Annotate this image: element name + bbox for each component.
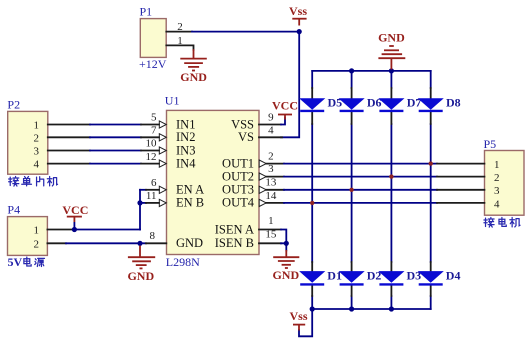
hanzi yuan of 5V dianyuan xyxy=(35,258,45,266)
hanzi dan of jiedanpianji xyxy=(22,177,32,186)
node bus D2 xyxy=(349,306,354,311)
svg-text:D4: D4 xyxy=(446,268,461,282)
svg-text:D6: D6 xyxy=(367,96,382,110)
U1 output arrow OUT2 xyxy=(259,173,266,180)
svg-text:D5: D5 xyxy=(328,96,343,110)
U1 input arrow IN4 xyxy=(159,160,166,167)
power symbol Vss bottom xyxy=(293,325,305,331)
svg-text:GND: GND xyxy=(378,31,405,45)
svg-text:D7: D7 xyxy=(407,96,422,110)
diode D7 xyxy=(378,96,421,111)
connector P1 xyxy=(139,5,167,72)
svg-text:OUT4: OUT4 xyxy=(222,196,255,210)
svg-text:OUT3: OUT3 xyxy=(222,183,254,197)
svg-text:L298N: L298N xyxy=(166,255,200,269)
wire EN A xyxy=(140,189,146,191)
U1 input arrow IN3 xyxy=(159,147,166,154)
svg-text:P1: P1 xyxy=(140,5,153,19)
svg-text:GND: GND xyxy=(176,236,203,250)
svg-text:2: 2 xyxy=(268,151,274,163)
hanzi dian of jiedianji xyxy=(499,218,506,227)
node GND drop junction xyxy=(137,241,142,246)
svg-text:Vss: Vss xyxy=(289,4,307,18)
wire Vss vertical to VS pin xyxy=(281,32,299,138)
node OUT3 x D6 column xyxy=(349,188,353,192)
node OUT4 x D5 column xyxy=(310,201,314,205)
U1 output arrow OUT1 xyxy=(259,160,266,167)
node VCC junction xyxy=(72,227,77,232)
svg-text:5V: 5V xyxy=(8,255,23,269)
svg-text:13: 13 xyxy=(265,177,277,189)
wire P2 pin3 to IN3 xyxy=(48,150,90,152)
svg-text:Vss: Vss xyxy=(290,309,308,323)
svg-text:2: 2 xyxy=(494,172,500,184)
wire VSS pin to VCC symbol xyxy=(281,118,285,125)
svg-text:1: 1 xyxy=(34,225,40,237)
svg-text:ISEN A: ISEN A xyxy=(215,222,254,236)
connector P2 xyxy=(7,98,47,175)
U1 input arrow EN A xyxy=(159,186,166,193)
node ISEN junction xyxy=(284,241,289,246)
node bus D7 xyxy=(389,68,394,73)
wire diode column 2 xyxy=(351,71,353,309)
connector P4 xyxy=(7,202,47,255)
diode D6 xyxy=(339,96,382,111)
wire OUT4 to P5 pin4 xyxy=(266,202,284,204)
svg-text:2: 2 xyxy=(34,132,40,144)
U1 ISEN B pin 15 line xyxy=(259,242,281,244)
U1 input arrow IN1 xyxy=(159,121,166,128)
svg-text:1: 1 xyxy=(177,35,183,47)
U1 input arrow EN B xyxy=(159,199,166,206)
hanzi ji of jiedianji xyxy=(510,218,520,227)
wire OUT3 to P5 pin3 xyxy=(266,189,284,191)
diode D8 xyxy=(418,96,461,111)
svg-text:OUT1: OUT1 xyxy=(222,156,254,170)
U1 VS pin 4 line xyxy=(259,136,282,138)
svg-text:P4: P4 xyxy=(7,202,20,216)
svg-text:1: 1 xyxy=(34,120,40,132)
svg-text:5: 5 xyxy=(151,112,157,124)
P4 pin 1 line xyxy=(47,229,74,231)
svg-text:4: 4 xyxy=(268,124,274,136)
wire EN vertical xyxy=(139,190,141,230)
wire top diode bus xyxy=(312,70,431,72)
wire ISEN A to vertical xyxy=(281,230,286,244)
svg-text:D1: D1 xyxy=(327,268,342,282)
ground symbol below P1 xyxy=(180,49,207,70)
svg-text:ISEN B: ISEN B xyxy=(215,236,254,250)
node bus D6 xyxy=(349,68,354,73)
svg-text:VCC: VCC xyxy=(62,203,88,217)
svg-text:3: 3 xyxy=(494,185,500,197)
hanzi dian of 5V dianyuan xyxy=(24,257,31,266)
U1 output arrow OUT3 xyxy=(259,186,266,193)
node bus D3 xyxy=(389,306,394,311)
svg-text:15: 15 xyxy=(265,229,277,241)
svg-text:10: 10 xyxy=(146,138,158,150)
svg-text:EN B: EN B xyxy=(176,196,204,210)
svg-text:GND: GND xyxy=(180,70,207,84)
diode D4 xyxy=(418,268,461,284)
svg-text:GND: GND xyxy=(272,268,299,282)
svg-text:9: 9 xyxy=(268,112,274,124)
diode D5 xyxy=(299,96,342,111)
svg-text:IN3: IN3 xyxy=(176,143,195,157)
svg-text:IN4: IN4 xyxy=(176,156,196,170)
svg-text:1: 1 xyxy=(494,159,500,171)
wire Vss hook bottom xyxy=(299,309,312,336)
node Vss top junction xyxy=(297,29,302,34)
wire P4 pin2 to U1 GND xyxy=(66,242,146,244)
P1 pin 1 line xyxy=(166,45,193,49)
wire P2 pin1 to IN1 xyxy=(48,124,90,126)
svg-text:D3: D3 xyxy=(407,268,422,282)
svg-text:IN2: IN2 xyxy=(176,130,195,144)
power symbol VCC at U1 pin9 xyxy=(278,115,292,120)
diode D3 xyxy=(378,268,421,284)
ground symbol at P4/U1 GND net xyxy=(128,243,155,268)
node OUT2 x D7 column xyxy=(389,174,393,178)
svg-text:1: 1 xyxy=(268,215,274,227)
svg-text:2: 2 xyxy=(177,21,183,33)
wire P2 pin4 to IN4 xyxy=(48,163,90,165)
svg-text:11: 11 xyxy=(146,190,157,202)
hanzi jie of jiedanpianji xyxy=(9,177,19,187)
svg-text:3: 3 xyxy=(268,163,274,175)
svg-text:VCC: VCC xyxy=(272,98,298,112)
hanzi jie of jiedianji xyxy=(484,218,494,228)
wire diode column 4 xyxy=(430,71,432,309)
svg-text:4: 4 xyxy=(34,159,40,171)
wire P1 pin2 to Vss node xyxy=(192,31,299,33)
ground symbol at ISEN net xyxy=(273,250,299,268)
wire EN B xyxy=(140,202,146,204)
wire ISEN B junction to GND xyxy=(281,243,286,250)
P1 pin 2 line xyxy=(166,31,192,33)
wire diode column 1 xyxy=(311,71,313,309)
svg-text:D8: D8 xyxy=(446,96,461,110)
svg-text:D2: D2 xyxy=(367,268,382,282)
connector P5 xyxy=(484,137,525,215)
U1 VSS pin 9 line xyxy=(259,124,281,126)
svg-text:7: 7 xyxy=(151,125,157,137)
svg-text:8: 8 xyxy=(150,230,156,242)
svg-text:14: 14 xyxy=(265,190,277,202)
wire P4 pin1 to EN vertical xyxy=(74,229,140,231)
node bus D1 xyxy=(310,306,315,311)
power symbol VCC at P4 xyxy=(67,217,82,229)
op-amp U1 body xyxy=(165,93,259,269)
svg-text:GND: GND xyxy=(127,269,154,283)
diode D1 xyxy=(299,268,342,284)
U1 output arrow OUT4 xyxy=(259,199,266,206)
ground symbol above diode bus (inverted) xyxy=(378,46,405,70)
wire diode column 3 xyxy=(390,71,392,309)
U1 ISEN A pin 1 line xyxy=(259,229,281,231)
svg-text:2: 2 xyxy=(34,238,40,250)
svg-text:VS: VS xyxy=(238,130,254,144)
hanzi pian of jiedanpianji xyxy=(37,177,44,186)
U1 input arrow IN2 xyxy=(159,134,166,141)
svg-text:12: 12 xyxy=(146,151,157,163)
node EN B junction xyxy=(137,200,142,205)
diode D2 xyxy=(339,268,382,284)
svg-text:P5: P5 xyxy=(484,137,497,151)
svg-text:6: 6 xyxy=(151,177,157,189)
svg-text:U1: U1 xyxy=(165,93,180,107)
wire bottom diode bus xyxy=(312,308,431,310)
svg-text:OUT2: OUT2 xyxy=(222,169,254,183)
wire P2 pin2 to IN2 xyxy=(48,136,90,138)
P4 pin 2 line xyxy=(47,242,66,244)
wire OUT1 to P5 pin1 xyxy=(266,163,284,165)
svg-text:3: 3 xyxy=(34,146,40,158)
wire OUT2 to P5 pin2 xyxy=(266,176,284,178)
svg-text:P2: P2 xyxy=(7,98,20,112)
hanzi ji of jiedanpianji xyxy=(47,177,57,186)
svg-text:EN A: EN A xyxy=(176,183,204,197)
svg-text:+12V: +12V xyxy=(139,57,167,71)
node OUT1 x D8 column xyxy=(429,161,433,165)
svg-text:4: 4 xyxy=(494,198,500,210)
power symbol Vss top xyxy=(292,19,306,26)
